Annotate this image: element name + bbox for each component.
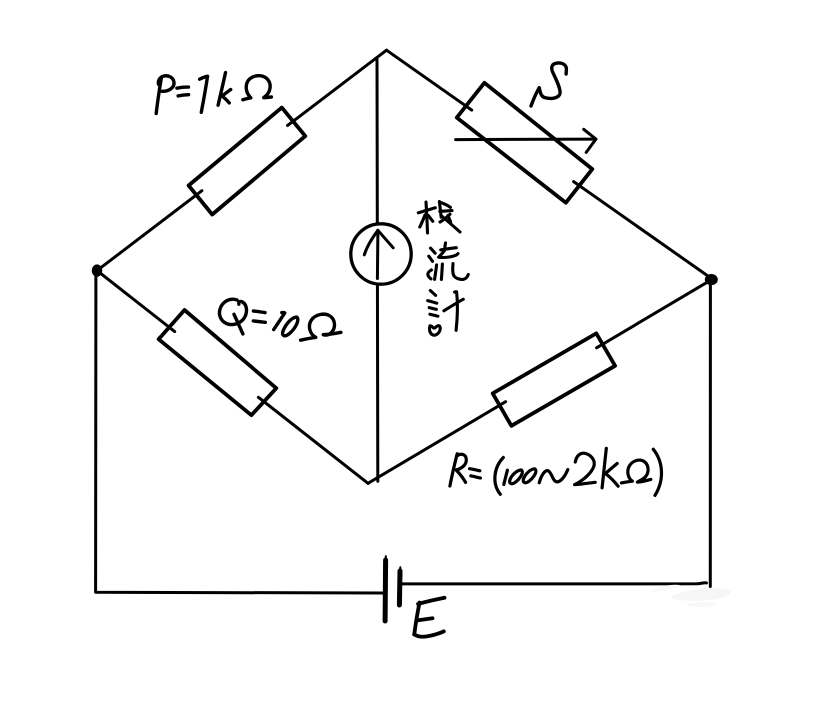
label S (handwritten) xyxy=(531,63,566,106)
wire W2: top vertex to right node (S arm) xyxy=(387,50,712,278)
wire W1: top vertex to left node (P arm) xyxy=(97,50,387,270)
label 検流計 character 検 (handwritten) xyxy=(418,202,460,233)
label E (handwritten) xyxy=(414,598,444,637)
label R=(100~2kΩ) (handwritten) xyxy=(450,448,662,495)
wire W7: battery negative plate along bottom and up to right node xyxy=(402,283,711,587)
label 検流計 character 計 (handwritten) xyxy=(428,291,464,336)
resistor Q box xyxy=(159,310,277,415)
node right junction dot xyxy=(705,274,718,285)
wire W4: bottom vertex to right node (R arm) xyxy=(368,280,712,484)
smudge (faint erased mark near bottom-right corner) xyxy=(652,585,731,607)
node left junction dot xyxy=(92,264,102,276)
resistor P box xyxy=(189,108,306,215)
resistor S box (variable) xyxy=(457,83,593,203)
label P=1kΩ (handwritten) xyxy=(156,73,271,114)
arrow through S (variable-resistor arrow) xyxy=(456,129,596,152)
label Q=10Ω (handwritten) xyxy=(219,299,340,340)
resistor R box xyxy=(493,333,615,425)
wire W6: left node down and along bottom to battery positive plate xyxy=(96,272,384,593)
label 検流計 character 流 (handwritten) xyxy=(428,243,468,280)
galvanometer arrow xyxy=(364,230,393,278)
wire W3: left node to bottom vertex (Q arm) xyxy=(97,271,368,484)
battery E short plate (negative) xyxy=(399,567,402,605)
battery E long plate (positive) xyxy=(384,556,387,621)
galvanometer G circle xyxy=(351,224,411,284)
wire W5: bridge centre vertical (galvanometer branch) xyxy=(376,58,380,482)
